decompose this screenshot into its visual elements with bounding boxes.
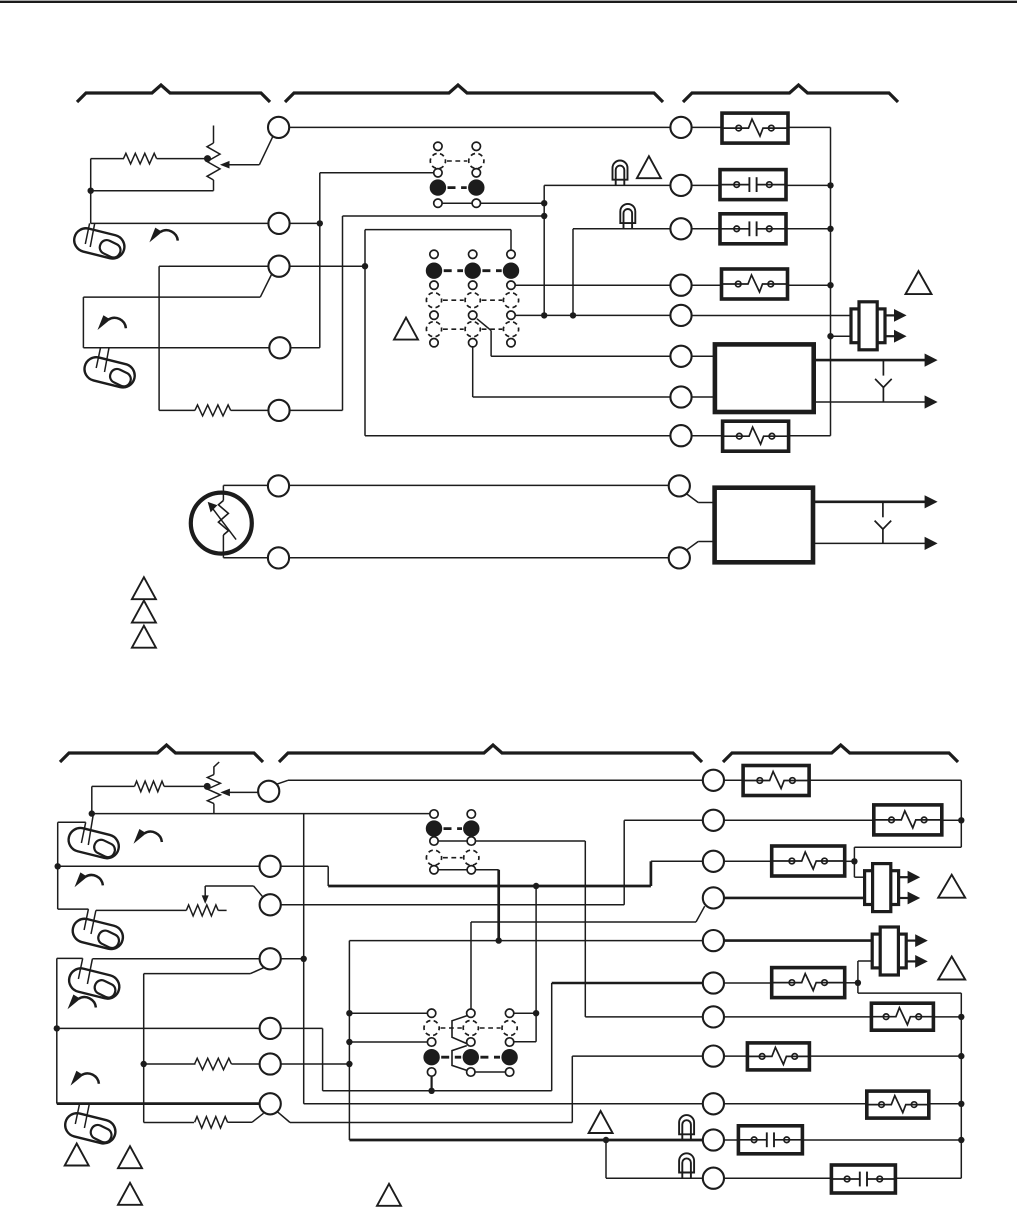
wire: 6L row (144, 1063, 196, 1065)
wire: 4L row (92, 958, 259, 960)
brace: system section (bottom diagram) (723, 745, 958, 762)
terminal circle L5 (268, 400, 289, 421)
rotation arrow A2 (98, 315, 126, 330)
wire: R row (bottom) (288, 779, 703, 781)
wire: vertical x159 (L3 to resistor row) (158, 266, 160, 410)
wire: R8 row (572, 1055, 702, 1057)
wire R8b to box K6b (724, 1055, 747, 1057)
wire R2 to box V1 (692, 184, 720, 186)
wire K1 output (788, 126, 831, 128)
wire: W bus up corner (650, 861, 653, 886)
terminal circle RB (669, 547, 690, 568)
wire: row5 from bank col3 (515, 314, 670, 316)
potentiometer P2 zigzag (207, 775, 220, 804)
terminal circle R6b (703, 972, 724, 993)
resistor R-temp (heat anticipator scale) wire (91, 158, 124, 160)
wire R4 to box K2 (692, 284, 722, 286)
wire: row A left (223, 484, 268, 486)
terminal circle R1b (703, 770, 724, 791)
wire: L3 left horizontal (159, 265, 268, 267)
terminal circle 1L (bottom) (258, 781, 279, 802)
bank B2 dashed links row2 (443, 328, 464, 330)
anticipator resistor R4b zigzag (186, 905, 218, 916)
bank B3 closed link (444, 827, 463, 830)
wire K3b output (845, 860, 855, 862)
wire: bank B3 bottom link (438, 869, 467, 871)
wire: y1091 row (323, 1090, 552, 1092)
node: x349 6L row (346, 1061, 352, 1067)
wire: vertical x585 (584, 841, 586, 1017)
mercury switch M4b bulb (63, 1111, 118, 1146)
node: K3b output junction (851, 858, 857, 864)
resistor R3b zigzag (135, 781, 165, 792)
terminal circle R7b (703, 1006, 724, 1027)
relay box K4b (resistor) (772, 968, 845, 998)
terminal circle R11b (703, 1168, 724, 1189)
wire: bank B2 col3 top feed (510, 230, 512, 251)
wire: 4L to junction (281, 958, 304, 960)
wire: vertical x144 (143, 974, 145, 1123)
terminal circle 4L (260, 948, 281, 969)
wire: L2 to vertical bus (290, 222, 320, 224)
wire: R9 row (304, 1103, 703, 1105)
mercury switch M1 bulb (72, 226, 127, 261)
wire: mercury M1 row to terminal L2 (91, 222, 269, 224)
wire R6 to fan box (692, 355, 715, 357)
switch bank B2 col3 contacts (507, 250, 515, 258)
potentiometer P2 bottom lead (213, 804, 215, 814)
node: y216 junction (541, 213, 547, 219)
equipment box E2 (715, 488, 813, 563)
indicator lamp LP1b (679, 1115, 694, 1140)
triangle note 2 (906, 271, 932, 294)
wire R1b to box K1b (724, 779, 744, 781)
terminal circle LA (268, 475, 289, 496)
wire K5b output (933, 1016, 961, 1018)
terminal circle 6L (260, 1053, 281, 1074)
wire: up to R6 row (551, 983, 553, 1091)
anticipator open tail (218, 909, 226, 911)
terminal circle R5 (top diagram right) (670, 305, 691, 326)
terminal circle R6 (top diagram right) (670, 346, 691, 367)
mercury switch M4b electrodes (75, 1104, 79, 1124)
wire R8 row to box K3 (692, 435, 724, 437)
wire E2 output neutral (813, 542, 925, 544)
wire: to plug C1 top (854, 876, 864, 878)
wire: y216 horizontal to center bus (343, 215, 545, 217)
node: left bus / pot bottom wire (88, 188, 94, 194)
relay box K1b (resistor) (743, 766, 809, 796)
equipment box E1 (715, 344, 814, 412)
rotation arrow A4b (71, 1071, 99, 1086)
mercury switch M1b electrodes (81, 822, 85, 843)
terminal circle R3 (top diagram right) (670, 218, 691, 239)
pot P2 wiper arrow (220, 789, 230, 797)
wire: vertical to mercury M2 row (82, 297, 84, 348)
sensor RT1 zigzag (218, 501, 228, 536)
valve box V1b (capacitor) (738, 1126, 802, 1154)
wire R9b to box K7b (724, 1103, 867, 1105)
wire: x536 to bank B4 col3 mid (514, 1041, 536, 1043)
wire: right bus x830 (830, 127, 832, 435)
bank B4 col2 bracket lower (452, 1046, 467, 1071)
sensor RT1 lead bottom (222, 535, 224, 558)
wire V1 output (786, 184, 831, 186)
triangle note 5 (bank) (394, 318, 418, 340)
wire: row8 from x365 (365, 435, 670, 437)
wire: bank B1 bottom row to center bus (481, 202, 545, 204)
wire R7b to box K5b (724, 1016, 871, 1018)
brace: subbase section (bottom diagram) (279, 745, 702, 762)
transformer plug X1 (851, 302, 907, 350)
triangle note 7b (938, 957, 965, 980)
triangle note 3b (132, 601, 156, 623)
wire RB diagonal to box E2 (687, 542, 698, 550)
switch bank B3 col2 contacts (467, 810, 475, 818)
wire: lamp row 3 (y229) (573, 228, 670, 230)
wire V2b output (895, 1177, 961, 1179)
wire: L3 right to junction (290, 265, 365, 267)
wire: right bus upper (960, 780, 962, 847)
terminal circle R1 (top diagram right) (670, 117, 691, 138)
bank B2 closed links (444, 269, 463, 272)
node: x92 bottom (89, 810, 95, 816)
rotation arrow A3b (68, 995, 96, 1010)
transformer plug X1b (865, 864, 921, 912)
node: x349 col1 mid (346, 1039, 352, 1045)
node: R10/R11 branch (603, 1137, 609, 1143)
triangle note 2b (118, 1146, 142, 1168)
wire bus to transformer (831, 335, 853, 337)
wire V1b output (803, 1139, 962, 1141)
terminal circle 3L (260, 894, 281, 915)
wire resistor to pot (157, 158, 205, 160)
wire R1 to box K1 (692, 126, 722, 128)
terminal circle R8 (top diagram right) (670, 425, 691, 446)
bank B4 closed links (441, 1056, 461, 1059)
wire: wiper diagonal to terminal circle 1 (259, 137, 272, 165)
wire: 7L lower row to corner (290, 1122, 572, 1124)
wire: 2L to step corner (281, 865, 329, 867)
wire R5b to plug C2 top (724, 939, 873, 942)
node: W bus branch (533, 883, 539, 889)
terminal circle LB (268, 547, 289, 568)
terminal circle R8b (703, 1046, 724, 1067)
wire R5 to transformer (692, 315, 852, 317)
wire: row7 from bank col2 (473, 396, 671, 398)
page top rule (0, 1, 1017, 3)
wire: left vertical bus (pot to mercury switch M1) (90, 159, 92, 224)
mercury switch M1 electrodes (85, 223, 89, 244)
wire: stub to M1b left electrode (58, 821, 86, 823)
resistor R2 zigzag (195, 405, 231, 416)
switch bank B4 col2 contacts (467, 1009, 475, 1017)
node: R6 output junction (855, 980, 861, 986)
bank B1 closed link (448, 186, 467, 189)
wire R3b to box K3b (724, 860, 772, 862)
switch bank B2 col2 contacts (469, 250, 477, 258)
terminal circle 5L (260, 1018, 281, 1039)
wire E1 output neutral (814, 401, 925, 403)
wire: 4L diagonal branch (250, 967, 264, 973)
brace: subbase section (top diagram) (285, 85, 663, 102)
sensor RT1 arrow (212, 507, 237, 540)
mercury switch M1b bulb (66, 825, 121, 860)
brace: thermostat section (top diagram) (77, 85, 270, 102)
terminal circle R2b (703, 810, 724, 831)
wire: bank B3 bottom feed (476, 869, 499, 871)
terminal circle R9b (703, 1093, 724, 1114)
wire: resistor R2 row to terminal L5 (159, 409, 195, 411)
wire: resistor R6b row (144, 1122, 194, 1124)
terminal circle L1 (top diagram) (268, 117, 289, 138)
indicator lamp LP1 (613, 161, 628, 186)
wire V2 output (786, 228, 831, 230)
wire: W step down (327, 866, 329, 886)
wire K1b output (809, 779, 962, 781)
transformer plug X2b (872, 927, 928, 975)
brace: system section (top diagram) (683, 85, 898, 102)
terminal circle RA (669, 475, 690, 496)
wire: right bus lower (960, 993, 962, 1178)
resistor R1 zigzag (124, 153, 157, 164)
triangle note 3c (132, 626, 156, 648)
wire: bank B4 col1 top wire (349, 1012, 427, 1014)
terminal circle R10b (703, 1129, 724, 1150)
node: x536 col3 top junction (533, 1010, 539, 1016)
relay box K6b (resistor) (747, 1043, 809, 1070)
wire: bank B4 col3 top wire (514, 1012, 536, 1014)
wire: bank B2 col2 diagonal (477, 319, 491, 331)
node: bus/K6b (958, 1053, 964, 1059)
wire R2b to box K2b (724, 819, 874, 821)
node: row5 junction x573 (570, 312, 576, 318)
mercury switch M2b bulb (70, 916, 125, 951)
node: bank B4 col1 stem junction (428, 1088, 434, 1094)
node: 4L junction x304 (301, 956, 307, 962)
rotation arrow A1 (149, 228, 177, 243)
wire: row4 from bank col3 (515, 284, 670, 286)
valve box V2 (capacitor) (720, 214, 786, 244)
triangle note 4b (377, 1184, 401, 1206)
wire: mercury M2 row to terminal L4 (83, 347, 269, 349)
wire: y813 row to bank B3 col1 (92, 813, 430, 815)
wire: 5L step down (322, 1028, 324, 1090)
node: L3 junction on vertical (362, 263, 368, 269)
node: bus/V1b (958, 1137, 964, 1143)
terminal circle 7L (260, 1093, 281, 1114)
wire: resistor R3b row (92, 785, 135, 787)
terminal circle L3 (268, 256, 289, 277)
wire: center bus x573 (572, 229, 574, 316)
node: x499 to R5 row (496, 937, 502, 943)
switch bank B4 col3 contacts (505, 1009, 513, 1017)
wire: vertical bus x320 (bank1 feed) (319, 173, 321, 348)
outdoor sensor RT1 body (191, 493, 252, 554)
bank B2 dashed links row1 (443, 299, 464, 301)
switch bank B4 col1 contacts (427, 1009, 435, 1017)
wire: row A main (289, 484, 669, 486)
relay box K2 (resistor) (722, 269, 788, 299)
wire: W to R3 terminal (651, 860, 703, 862)
wire: bank B2 col2 bottom drop (472, 347, 474, 397)
wire: bank B1 bottom row link (442, 202, 472, 204)
wire: row6 from bank diagonal (491, 355, 670, 357)
triangle note 3a (132, 577, 156, 599)
node: bank1 bottom junction (541, 200, 547, 206)
pot P3 wiper arrow (down) (202, 895, 209, 904)
mercury switch M2 electrodes (96, 348, 100, 368)
rotation arrow A1b (134, 829, 162, 844)
resistor R6b zigzag (195, 1117, 228, 1128)
wire: bus jog left (854, 846, 961, 848)
switch bank B1 col2 contacts (472, 142, 480, 150)
wire: 1L diagonal to R row (276, 780, 288, 784)
terminal circle R5b (703, 930, 724, 951)
wire R3 to box V2 (692, 228, 720, 230)
pot P1 wiper arrow (220, 161, 230, 169)
wire: row1 left horizontal (289, 126, 670, 128)
indicator lamp LP2b (679, 1153, 694, 1178)
terminal circle R4 (top diagram right) (670, 275, 691, 296)
terminal circle L2 (268, 213, 289, 234)
valve box V2b (capacitor) (831, 1165, 895, 1193)
bank B4 col2 bracket upper (452, 1016, 467, 1044)
wire: R4 row (471, 921, 696, 923)
potentiometer P2 top lead (214, 762, 219, 775)
node: 5L row on left bus (54, 1025, 60, 1031)
node: W row on left bus (55, 863, 61, 869)
wire: 6L right to junction (281, 1063, 350, 1065)
wire: 5L row (57, 1027, 260, 1029)
wire: bank B3 mid row link (438, 840, 467, 842)
relay box K7b (resistor) (867, 1091, 929, 1118)
potentiometer P1 zigzag (207, 143, 220, 180)
wire: y820 to R2 terminal (624, 819, 703, 821)
sensor RT1 lead top (222, 485, 224, 500)
node: bus/K2b (958, 817, 964, 823)
wire: R6 row (552, 982, 703, 985)
bank B3 dashed link (443, 857, 463, 859)
wire: center bus x544 (543, 185, 545, 315)
triangle note 5b (589, 1111, 613, 1133)
potentiometer P1 bottom lead (213, 180, 215, 191)
wire R11b to box V2b (724, 1177, 832, 1179)
terminal circle R2 (top diagram right) (670, 175, 691, 196)
relay box K1 (resistor) (722, 113, 788, 143)
wire: bank B4 col1 mid wire (349, 1041, 427, 1043)
wire: bank B4 col1 stem (431, 1076, 433, 1091)
bank B1 dashed link (447, 160, 467, 162)
potentiometer P1 top lead (213, 126, 215, 144)
wire: vertical x304 (303, 814, 305, 1104)
wire: 5L to corner (281, 1027, 323, 1029)
wire E2 output hot (813, 500, 925, 503)
triangle note 3b2 (118, 1183, 142, 1205)
switch bank B2 col1 contacts (430, 250, 438, 258)
wire: drop to R11 row (605, 1140, 607, 1178)
mercury switch M3b electrodes (78, 958, 82, 979)
brace: thermostat section (bottom diagram) (60, 745, 263, 762)
wire: left vertical x92 (91, 786, 93, 813)
node: L2 wire junction (317, 220, 323, 226)
wire: 3L row right (281, 904, 624, 906)
wire R6b to box K4b (724, 982, 772, 984)
wire: 7L diagonal down (278, 1112, 290, 1123)
terminal circle R7 (top diagram right) (670, 386, 691, 407)
wire: bank1 feed horizontal (320, 172, 434, 174)
wire: L5 right up corner (290, 409, 343, 411)
indicator lamp LP2 (620, 204, 635, 229)
mercury switch M2b electrodes (84, 909, 88, 930)
wire: pot bottom to left bus (91, 190, 214, 192)
wire K4b output (845, 982, 858, 984)
wire E1 output hot (814, 359, 925, 362)
wire: W heavy bus (328, 885, 651, 888)
wire R4b to plug C1 bottom (724, 897, 865, 900)
triangle note 1 (637, 156, 661, 178)
wire: plug C2 bottom feed (858, 960, 872, 962)
wire: L4 right to vertical bus (291, 347, 320, 349)
wire: left bus segment A (57, 822, 59, 909)
wire K2 output (787, 284, 830, 286)
wire: stub to M3b left electrode (57, 957, 83, 959)
wire: branch x536 (535, 886, 537, 1042)
rotation arrow A2b (75, 872, 103, 887)
wire: jog down to K3b output (853, 847, 855, 877)
wire K7b output (929, 1103, 962, 1105)
triangle note 1b (65, 1144, 89, 1166)
terminal circle 2L (260, 856, 281, 877)
wire: R10 heavy row (349, 1139, 702, 1142)
wire R7 to fan box (692, 396, 715, 398)
node: bus/K7b (958, 1101, 964, 1107)
node: resistor/pot junction (204, 155, 211, 162)
fork connector F2 (875, 502, 892, 544)
wire RA diagonal to box E2 (687, 494, 698, 503)
wire: vertical x365 (364, 230, 366, 436)
wire: R7 row (585, 1016, 702, 1018)
wire K3 output to bus (788, 435, 831, 437)
mercury switch M2 bulb (82, 355, 137, 390)
wire K6b output (809, 1055, 961, 1057)
wire: R4 diagonal (696, 906, 705, 922)
relay box K2b (resistor) (874, 805, 942, 835)
wire: lamp row 2 (y185) (544, 184, 670, 186)
resistor R5b zigzag (195, 1058, 232, 1069)
triangle note 6b (938, 875, 965, 898)
wire: step to right bus (858, 992, 961, 994)
wire: R5 row (349, 940, 702, 942)
wire: bank B4 bottom link col2-col3 (475, 1071, 505, 1073)
wire: left bus segment B (56, 958, 58, 1103)
node: x349 col1 top (346, 1010, 352, 1016)
node: 6L row junction x144 (141, 1061, 147, 1067)
switch bank B1 col1 contacts (434, 142, 442, 150)
wire: L3 diagonal branch (260, 275, 271, 298)
node: bus/K5b (958, 1014, 964, 1020)
wire: bank B4 col2 stem up (R4 feed) (470, 922, 472, 1009)
wire K2b output (942, 819, 962, 821)
node: bus/K2 (827, 282, 833, 288)
node: row5 junction x544 (541, 312, 547, 318)
terminal circle R3b (703, 851, 724, 872)
relay box K5b (resistor) (871, 1003, 933, 1030)
wire: stub to M2b left electrode (58, 908, 89, 910)
wire: 7L heavy row (57, 1102, 260, 1105)
terminal circle R4b (703, 887, 724, 908)
wire: bank B3 mid row feed (476, 840, 586, 842)
